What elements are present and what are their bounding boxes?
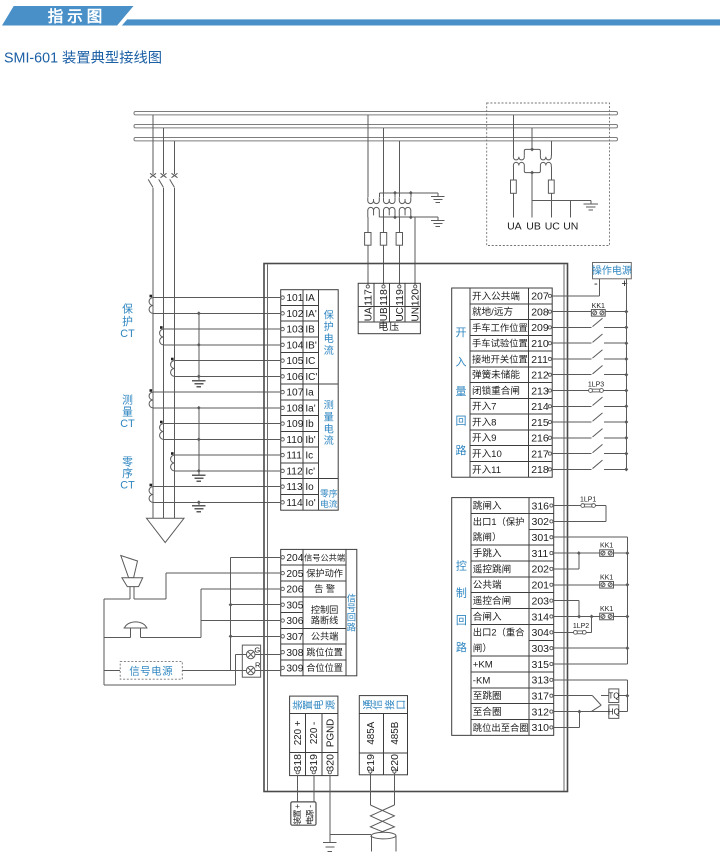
svg-text:电: 电 xyxy=(312,700,325,710)
svg-text:117: 117 xyxy=(362,289,374,306)
node PT2 primary center xyxy=(530,147,534,151)
breaker aux blade xyxy=(593,696,602,706)
wire TQ out xyxy=(619,695,628,697)
svg-text:号: 号 xyxy=(347,603,356,613)
svg-text:307: 307 xyxy=(286,632,303,643)
circuit breaker cross mark xyxy=(150,173,156,177)
wire PT primary neutral stub xyxy=(410,193,412,197)
switch digital input row 215 xyxy=(552,421,592,423)
svg-text:217: 217 xyxy=(531,448,549,460)
svg-text:104: 104 xyxy=(286,340,303,351)
svg-text:Io': Io' xyxy=(305,498,315,509)
svg-text:路: 路 xyxy=(455,444,466,457)
wire common bottom xyxy=(104,684,236,686)
wire PT2 secondary neutral xyxy=(532,200,591,202)
svg-text:电: 电 xyxy=(324,332,334,345)
svg-text:210: 210 xyxy=(531,338,549,350)
svg-text:UN: UN xyxy=(411,307,422,321)
wire to signal power box xyxy=(104,670,120,672)
coil TQ xyxy=(601,695,609,697)
svg-text:220 +: 220 + xyxy=(293,720,304,745)
wire PT2 phase B drop xyxy=(531,128,533,149)
svg-text:310: 310 xyxy=(532,722,550,734)
wire PT2 phase A drop xyxy=(512,115,514,155)
svg-text:301: 301 xyxy=(532,532,550,544)
wire CT to terminal 107 xyxy=(153,391,283,393)
lamp R xyxy=(246,666,255,675)
svg-text:开入9: 开入9 xyxy=(472,433,497,444)
switch digital input row 217 xyxy=(552,453,592,455)
svg-text:102: 102 xyxy=(286,309,303,320)
svg-text:护: 护 xyxy=(122,314,133,328)
wire 307 xyxy=(231,635,282,637)
svg-text:合闸入: 合闸入 xyxy=(473,611,502,623)
wire feeder continuation xyxy=(152,188,154,518)
wire 310 join 312 xyxy=(578,712,580,728)
svg-text:306: 306 xyxy=(286,616,303,627)
svg-text:至合圈: 至合圈 xyxy=(473,706,502,718)
busbar phase C xyxy=(134,138,618,141)
wire common vertical lower xyxy=(230,636,232,670)
svg-text:开入7: 开入7 xyxy=(472,402,497,413)
fuse UA xyxy=(365,233,371,246)
CT measurement phase A (107/108) xyxy=(150,389,153,392)
svg-text:114: 114 xyxy=(286,498,303,509)
svg-text:304: 304 xyxy=(532,627,550,639)
svg-text:485A: 485A xyxy=(366,721,377,744)
svg-text:闭锁重合闸: 闭锁重合闸 xyxy=(472,385,520,397)
svg-text:314: 314 xyxy=(532,611,550,623)
wire 315 from bus xyxy=(553,663,627,665)
wire 313 to coils xyxy=(553,679,627,681)
svg-text:路: 路 xyxy=(347,621,357,632)
svg-text:Io: Io xyxy=(305,482,314,493)
svg-text:313: 313 xyxy=(532,675,550,687)
wire CT to terminal 114 xyxy=(153,501,283,503)
wire PT primary neutral xyxy=(379,192,438,194)
svg-text:320: 320 xyxy=(324,754,336,772)
svg-text:量: 量 xyxy=(324,412,334,424)
bell wire xyxy=(104,637,131,639)
svg-text:操作电源: 操作电源 xyxy=(592,264,632,277)
svg-text:201: 201 xyxy=(532,580,550,592)
svg-text:回: 回 xyxy=(347,613,356,623)
svg-text:回: 回 xyxy=(455,415,466,428)
CT protection phase A (101/102) xyxy=(150,295,153,298)
PT secondary winding xyxy=(384,207,396,217)
wire UA to terminal 117 xyxy=(367,217,369,232)
wire 305 xyxy=(231,604,282,606)
svg-text:118: 118 xyxy=(378,289,390,306)
svg-text:311: 311 xyxy=(532,548,549,560)
dashed box PT cabinet xyxy=(487,103,610,246)
circuit breaker blade xyxy=(148,179,153,187)
svg-text:120: 120 xyxy=(410,289,422,307)
device outline box xyxy=(264,264,568,792)
svg-text:流: 流 xyxy=(324,344,334,357)
svg-text:G: G xyxy=(254,645,260,654)
wire CT to terminal 106 xyxy=(175,375,283,377)
circuit breaker cross mark xyxy=(172,173,178,177)
link 1LP3 row 213 xyxy=(552,390,589,392)
wire CT to terminal 113 xyxy=(153,486,283,488)
wire 306 tap xyxy=(201,620,282,622)
svg-text:UN: UN xyxy=(563,221,578,233)
switch digital input row 216 xyxy=(552,437,592,439)
PT secondary winding xyxy=(368,207,380,217)
svg-text:UB: UB xyxy=(379,307,390,321)
svg-text:UA: UA xyxy=(363,307,374,321)
ground measurement CT xyxy=(198,472,200,475)
svg-text:119: 119 xyxy=(394,289,406,306)
wire PT secondary neutral xyxy=(379,216,438,218)
wire 220 down xyxy=(393,773,395,805)
terminal block 装置电源 318-320 xyxy=(290,696,338,776)
wire PT primary neutral stub xyxy=(394,193,396,197)
signal bell icon xyxy=(125,622,147,628)
svg-text:手跳入: 手跳入 xyxy=(473,547,502,559)
svg-text:312: 312 xyxy=(532,706,550,718)
svg-text:208: 208 xyxy=(531,306,549,318)
svg-text:220 -: 220 - xyxy=(309,722,320,744)
svg-text:485B: 485B xyxy=(390,721,401,744)
svg-text:路断线: 路断线 xyxy=(311,615,339,626)
wire operation power plus bus xyxy=(625,279,627,470)
svg-text:+: + xyxy=(293,804,302,809)
fuse PT2 UA xyxy=(512,167,514,180)
busbar phase B xyxy=(134,125,618,128)
switch digital input row 209 xyxy=(552,326,592,328)
CT measurement phase B (109/110) xyxy=(160,421,163,424)
wire PT phase C drop xyxy=(398,141,400,197)
svg-text:205: 205 xyxy=(286,569,303,580)
wire control right bus xyxy=(626,537,628,664)
svg-text:IB: IB xyxy=(305,325,315,336)
svg-text:309: 309 xyxy=(286,664,303,675)
svg-text:Ic: Ic xyxy=(305,451,313,462)
wire measurement CT ground bus xyxy=(198,408,200,474)
CT measurement phase C (111/112) xyxy=(171,452,174,455)
svg-text:合位位置: 合位位置 xyxy=(306,662,343,673)
svg-text:测: 测 xyxy=(324,399,334,412)
terminal block control 316-310 xyxy=(452,498,554,736)
svg-text:公共端: 公共端 xyxy=(311,631,339,642)
svg-text:置: 置 xyxy=(303,700,315,710)
svg-text:手车试验位置: 手车试验位置 xyxy=(472,338,528,349)
svg-text:IA': IA' xyxy=(305,309,316,320)
svg-text:弹簧未储能: 弹簧未储能 xyxy=(472,369,520,381)
wire CT to terminal 109 xyxy=(164,423,283,425)
svg-text:至跳圈: 至跳圈 xyxy=(473,690,502,702)
PT2 secondary winding right xyxy=(540,162,551,167)
svg-text:315: 315 xyxy=(532,659,550,671)
svg-text:204: 204 xyxy=(286,553,303,564)
svg-text:出口1（保护: 出口1（保护 xyxy=(473,516,525,527)
svg-text:就地/远方: 就地/远方 xyxy=(472,306,513,318)
svg-text:109: 109 xyxy=(286,419,303,430)
svg-text:1LP1: 1LP1 xyxy=(580,497,596,504)
wire UC to terminal 119 xyxy=(398,217,400,232)
svg-text:保护动作: 保护动作 xyxy=(306,567,343,578)
svg-text:电: 电 xyxy=(324,422,334,435)
wire CT to terminal 110 xyxy=(164,438,283,440)
svg-text:源: 源 xyxy=(305,809,314,817)
svg-text:信号公共端: 信号公共端 xyxy=(304,553,345,563)
svg-text:IA: IA xyxy=(305,293,315,304)
circuit breaker blade xyxy=(159,179,164,187)
PT primary winding xyxy=(384,197,396,203)
ground PT secondary xyxy=(437,217,439,220)
svg-text:公共端: 公共端 xyxy=(473,579,502,591)
svg-text:Ib': Ib' xyxy=(305,435,315,446)
PT primary winding xyxy=(368,197,380,203)
svg-text:112: 112 xyxy=(286,466,303,477)
coil HQ xyxy=(609,705,619,719)
svg-text:跳位出至合圈: 跳位出至合圈 xyxy=(473,722,529,733)
svg-text:手车工作位置: 手车工作位置 xyxy=(472,322,528,333)
ground PT2 secondary xyxy=(590,201,592,204)
svg-text:量: 量 xyxy=(455,385,466,398)
svg-text:319: 319 xyxy=(308,754,320,772)
svg-text:-: - xyxy=(594,278,598,290)
svg-text:跳位位置: 跳位位置 xyxy=(306,646,343,657)
svg-text:信: 信 xyxy=(372,700,384,710)
svg-text:105: 105 xyxy=(286,356,303,367)
svg-text:103: 103 xyxy=(286,325,303,336)
svg-text:接: 接 xyxy=(384,700,397,710)
svg-text:制: 制 xyxy=(456,587,467,600)
wire CT to terminal 112 xyxy=(175,470,283,472)
svg-text:序: 序 xyxy=(122,466,133,480)
svg-text:跳闸入: 跳闸入 xyxy=(473,500,502,512)
wire PT2 phase C drop xyxy=(550,141,552,155)
contact KK1 row 208 xyxy=(552,311,592,313)
wire operation power minus to 207 xyxy=(598,279,600,296)
svg-text:UC: UC xyxy=(545,221,561,233)
wire 204 common xyxy=(231,556,282,558)
svg-text:218: 218 xyxy=(531,464,549,476)
PT secondary winding xyxy=(399,207,411,217)
wire PT2 UB xyxy=(531,173,533,218)
svg-text:UC: UC xyxy=(395,307,406,321)
svg-text:零: 零 xyxy=(122,455,133,468)
svg-text:KK1: KK1 xyxy=(600,543,613,550)
svg-text:CT: CT xyxy=(120,328,135,340)
wire CT to terminal 105 xyxy=(175,360,283,362)
wire 303 to bus xyxy=(553,647,627,649)
terminal block 通信接口 219-220 xyxy=(359,696,407,775)
svg-text:303: 303 xyxy=(532,643,550,655)
svg-text:SMI-601 装置典型接线图: SMI-601 装置典型接线图 xyxy=(4,50,162,67)
svg-text:107: 107 xyxy=(286,388,303,399)
wire 311 via KK1 xyxy=(553,552,599,554)
svg-text:317: 317 xyxy=(532,691,550,703)
circuit breaker cross mark xyxy=(161,173,167,177)
wire UN2 drop xyxy=(569,201,571,218)
svg-text:入: 入 xyxy=(455,357,466,369)
twisted pair xyxy=(370,805,394,837)
wire PT phase A drop xyxy=(367,115,369,197)
CT protection phase B (103/104) xyxy=(160,326,163,329)
svg-text:KK1: KK1 xyxy=(592,303,605,310)
svg-text:213: 213 xyxy=(531,385,549,397)
wire protection CT ground bus xyxy=(198,313,200,379)
svg-text:-: - xyxy=(305,805,314,808)
PT2 secondary winding left xyxy=(513,162,524,167)
wire 206 to bell xyxy=(201,588,282,590)
ground protection CT xyxy=(198,377,200,380)
header banner thin strip xyxy=(122,19,720,25)
wire feeder phase B drop xyxy=(163,128,165,174)
svg-text:闸）: 闸） xyxy=(473,643,492,655)
wire 319 to power box xyxy=(313,775,315,802)
ground PT primary xyxy=(437,193,439,196)
svg-text:207: 207 xyxy=(531,291,549,303)
svg-text:TQ: TQ xyxy=(608,692,619,701)
ground PGND xyxy=(329,834,331,842)
svg-text:101: 101 xyxy=(286,293,303,304)
wire lamp common vertical xyxy=(235,655,237,686)
feeder arrow to load xyxy=(147,518,185,542)
PT primary winding xyxy=(399,197,411,203)
svg-text:220: 220 xyxy=(389,754,401,772)
svg-text:206: 206 xyxy=(286,585,303,596)
wire 1LP1 to 302 xyxy=(605,506,607,522)
svg-text:R: R xyxy=(255,660,261,669)
wire 314 via KK1 xyxy=(553,615,600,617)
wire PT phase B drop xyxy=(383,128,385,197)
wire feeder continuation xyxy=(163,188,165,518)
svg-text:保: 保 xyxy=(324,308,334,321)
wire UB to terminal 118 xyxy=(383,217,385,232)
svg-text:203: 203 xyxy=(532,595,550,607)
svg-text:电流: 电流 xyxy=(320,498,338,509)
svg-text:IC': IC' xyxy=(305,372,317,383)
terminal block signal 204-309 xyxy=(281,549,357,675)
wire 312 to HQ xyxy=(553,711,609,713)
wire G lamp to 308 xyxy=(236,654,282,656)
svg-text:CT: CT xyxy=(120,418,135,430)
box 操作电源 xyxy=(593,263,632,279)
switch digital input row 211 xyxy=(552,358,592,360)
svg-text:HQ: HQ xyxy=(608,707,620,716)
wire 1LP2 up to 314 xyxy=(591,616,593,632)
wire 203 drop to 314 xyxy=(553,600,579,602)
device inner line right xyxy=(563,265,565,792)
terminal block voltage 117-120 xyxy=(358,283,422,333)
svg-text:开入10: 开入10 xyxy=(472,449,502,460)
svg-text:KK1: KK1 xyxy=(600,574,613,581)
wire UN to terminal 120 xyxy=(414,217,416,284)
svg-text:UA: UA xyxy=(507,221,522,233)
svg-text:信: 信 xyxy=(347,593,356,604)
wire feeder phase A drop xyxy=(152,115,154,174)
svg-text:开入11: 开入11 xyxy=(472,465,501,476)
device inner line left xyxy=(266,265,268,792)
link 1LP1 row 316 xyxy=(553,505,581,507)
svg-text:211: 211 xyxy=(531,354,548,366)
PT2 primary winding left xyxy=(513,155,524,160)
wire feeder phase C drop xyxy=(174,141,176,174)
wire PT2 primary link xyxy=(524,149,540,155)
svg-text:告 警: 告 警 xyxy=(314,583,335,594)
svg-text:CT: CT xyxy=(120,480,135,492)
fuse UB xyxy=(380,233,386,246)
svg-text:信号电源: 信号电源 xyxy=(129,665,173,678)
svg-text:+: + xyxy=(621,278,627,290)
svg-text:1LP2: 1LP2 xyxy=(573,623,589,630)
wire CT to terminal 101 xyxy=(153,297,283,299)
wire 320 PGND xyxy=(329,775,331,835)
svg-text:遥控跳闸: 遥控跳闸 xyxy=(473,563,511,575)
svg-text:UB: UB xyxy=(526,221,541,233)
busbar phase A xyxy=(134,112,618,115)
svg-text:111: 111 xyxy=(286,451,302,462)
svg-text:+KM: +KM xyxy=(473,659,493,670)
svg-text:-KM: -KM xyxy=(473,675,491,686)
box 装置电源 external xyxy=(291,802,316,825)
svg-text:110: 110 xyxy=(286,435,303,446)
wire CT to terminal 108 xyxy=(153,407,283,409)
svg-text:量: 量 xyxy=(122,405,133,418)
svg-text:路: 路 xyxy=(456,641,467,654)
svg-text:护: 护 xyxy=(324,320,334,333)
svg-text:1LP3: 1LP3 xyxy=(588,382,604,389)
ground zero-sequence CT xyxy=(197,500,201,504)
svg-text:216: 216 xyxy=(531,433,549,445)
svg-text:开入8: 开入8 xyxy=(472,417,497,428)
svg-text:回: 回 xyxy=(456,614,467,627)
wire CT to terminal 104 xyxy=(164,344,283,346)
wire common vertical xyxy=(230,557,232,668)
wire CT to terminal 102 xyxy=(153,312,283,314)
wire 318 to power box xyxy=(297,775,299,802)
wire feeder continuation xyxy=(174,188,176,518)
wire PT primary neutral stub xyxy=(378,193,380,197)
svg-text:PGND: PGND xyxy=(325,719,336,747)
switch digital input row 214 xyxy=(552,405,592,407)
wire 201 via KK1 xyxy=(553,584,599,586)
fuse UC xyxy=(396,233,402,246)
svg-text:指示图: 指示图 xyxy=(48,6,107,25)
CT protection phase C (105/106) xyxy=(171,358,174,361)
svg-text:开入公共端: 开入公共端 xyxy=(472,290,520,302)
svg-text:106: 106 xyxy=(286,372,303,383)
svg-text:219: 219 xyxy=(365,754,377,772)
svg-text:控: 控 xyxy=(456,559,467,573)
svg-text:209: 209 xyxy=(531,322,549,334)
signal horn icon xyxy=(121,556,143,587)
wire 219 down xyxy=(369,773,371,805)
svg-text:316: 316 xyxy=(532,500,550,512)
cable shield cylinder xyxy=(371,832,396,839)
PT2 primary winding right xyxy=(540,155,551,160)
wire 205 to horn xyxy=(166,572,282,574)
svg-text:保: 保 xyxy=(122,302,133,316)
wire PT2 secondary link xyxy=(524,167,540,173)
svg-text:出口2（重合: 出口2（重合 xyxy=(473,627,525,638)
horn wire xyxy=(104,598,130,600)
svg-text:控制回: 控制回 xyxy=(311,604,339,615)
svg-text:Ic': Ic' xyxy=(305,466,315,477)
svg-text:Ia': Ia' xyxy=(305,403,315,414)
svg-text:214: 214 xyxy=(531,401,549,413)
svg-text:IC: IC xyxy=(305,356,315,367)
CT zero-sequence (113/114) xyxy=(150,484,153,487)
svg-text:电压: 电压 xyxy=(378,320,400,333)
terminal block current inputs 101-114 xyxy=(281,290,339,511)
svg-text:305: 305 xyxy=(286,600,303,611)
